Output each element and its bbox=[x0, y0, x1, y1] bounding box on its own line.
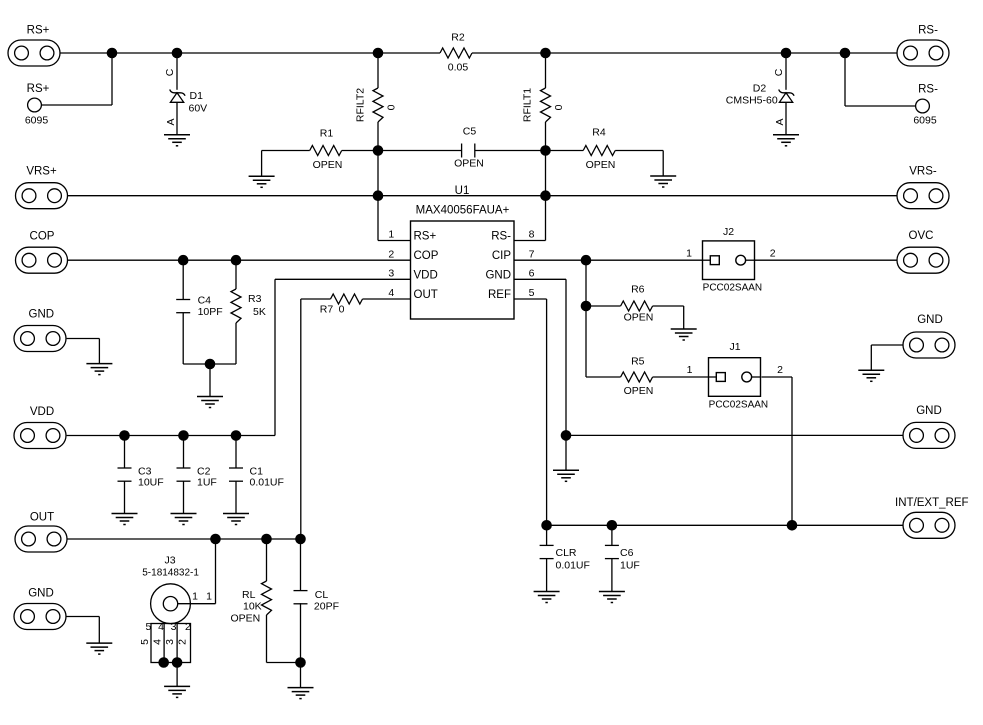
svg-text:0.01UF: 0.01UF bbox=[556, 560, 590, 572]
svg-text:6095: 6095 bbox=[25, 115, 49, 127]
svg-text:CIP: CIP bbox=[492, 250, 512, 262]
svg-text:OPEN: OPEN bbox=[313, 159, 343, 171]
svg-text:U1: U1 bbox=[455, 185, 470, 197]
svg-text:4: 4 bbox=[388, 287, 394, 299]
svg-text:0: 0 bbox=[386, 104, 398, 110]
svg-text:GND: GND bbox=[28, 587, 54, 599]
svg-text:RS-: RS- bbox=[918, 25, 938, 37]
svg-text:GND: GND bbox=[917, 314, 943, 326]
svg-text:VRS-: VRS- bbox=[909, 166, 937, 178]
svg-text:2: 2 bbox=[777, 364, 783, 376]
svg-text:3: 3 bbox=[388, 268, 394, 280]
svg-text:10PF: 10PF bbox=[198, 306, 223, 318]
svg-text:VDD: VDD bbox=[414, 269, 438, 281]
svg-text:D1: D1 bbox=[190, 90, 204, 102]
svg-text:D2: D2 bbox=[753, 83, 767, 95]
svg-text:1UF: 1UF bbox=[620, 560, 640, 572]
svg-text:R2: R2 bbox=[451, 32, 465, 44]
svg-text:RS+: RS+ bbox=[414, 231, 437, 243]
svg-text:R7: R7 bbox=[320, 304, 334, 316]
svg-text:0: 0 bbox=[553, 104, 565, 110]
svg-text:10UF: 10UF bbox=[138, 476, 164, 488]
svg-text:C5: C5 bbox=[463, 126, 477, 138]
svg-text:GND: GND bbox=[485, 269, 511, 281]
svg-text:4: 4 bbox=[152, 639, 164, 645]
svg-text:6095: 6095 bbox=[913, 115, 937, 127]
svg-text:2: 2 bbox=[770, 248, 776, 260]
svg-text:8: 8 bbox=[529, 229, 535, 241]
svg-text:3: 3 bbox=[164, 639, 176, 645]
svg-text:60V: 60V bbox=[189, 102, 208, 114]
svg-text:OVC: OVC bbox=[909, 230, 934, 242]
svg-text:5: 5 bbox=[145, 621, 151, 633]
svg-text:GND: GND bbox=[29, 309, 55, 321]
svg-text:CLR: CLR bbox=[556, 547, 577, 559]
svg-text:C6: C6 bbox=[620, 547, 634, 559]
svg-text:3: 3 bbox=[171, 621, 177, 633]
svg-text:OPEN: OPEN bbox=[454, 158, 484, 170]
svg-text:R4: R4 bbox=[592, 126, 606, 138]
svg-text:OUT: OUT bbox=[30, 511, 54, 523]
svg-text:COP: COP bbox=[414, 250, 439, 262]
svg-text:0.05: 0.05 bbox=[448, 62, 469, 74]
svg-text:PCC02SAAN: PCC02SAAN bbox=[703, 283, 762, 294]
svg-text:C4: C4 bbox=[198, 295, 212, 307]
svg-text:1: 1 bbox=[388, 229, 394, 241]
svg-text:OPEN: OPEN bbox=[231, 613, 261, 625]
svg-text:RS-: RS- bbox=[491, 231, 511, 243]
svg-text:1: 1 bbox=[687, 364, 693, 376]
svg-text:OPEN: OPEN bbox=[586, 159, 616, 171]
svg-text:INT/EXT_REF: INT/EXT_REF bbox=[895, 497, 968, 509]
svg-text:CL: CL bbox=[315, 589, 329, 601]
svg-text:R1: R1 bbox=[320, 127, 334, 139]
svg-text:RFILT1: RFILT1 bbox=[522, 88, 534, 122]
svg-text:A: A bbox=[165, 118, 177, 125]
svg-text:5: 5 bbox=[139, 639, 151, 645]
svg-text:C: C bbox=[773, 68, 785, 76]
svg-text:CMSH5-60: CMSH5-60 bbox=[726, 95, 778, 107]
svg-text:RL: RL bbox=[242, 589, 256, 601]
svg-text:PCC02SAAN: PCC02SAAN bbox=[709, 399, 768, 410]
svg-text:0: 0 bbox=[339, 304, 345, 316]
svg-text:COP: COP bbox=[30, 231, 55, 243]
svg-text:RFILT2: RFILT2 bbox=[355, 88, 367, 122]
svg-text:4: 4 bbox=[158, 621, 164, 633]
svg-text:1: 1 bbox=[192, 591, 198, 603]
svg-text:J3: J3 bbox=[164, 554, 175, 566]
svg-text:6: 6 bbox=[529, 268, 535, 280]
svg-text:A: A bbox=[774, 118, 786, 125]
svg-text:1: 1 bbox=[686, 248, 692, 260]
svg-text:OUT: OUT bbox=[414, 289, 438, 301]
svg-text:R6: R6 bbox=[631, 284, 645, 296]
svg-text:5: 5 bbox=[529, 287, 535, 299]
svg-text:5K: 5K bbox=[253, 306, 266, 318]
svg-text:7: 7 bbox=[529, 248, 535, 260]
svg-text:2: 2 bbox=[185, 621, 191, 633]
svg-text:REF: REF bbox=[488, 289, 511, 301]
svg-text:RS+: RS+ bbox=[27, 25, 50, 37]
svg-text:J1: J1 bbox=[729, 341, 740, 353]
svg-text:2: 2 bbox=[177, 639, 189, 645]
svg-text:RS-: RS- bbox=[918, 84, 938, 96]
svg-text:RS+: RS+ bbox=[27, 83, 50, 95]
svg-text:1UF: 1UF bbox=[197, 476, 217, 488]
svg-text:MAX40056FAUA+: MAX40056FAUA+ bbox=[416, 205, 510, 217]
svg-text:5-1814832-1: 5-1814832-1 bbox=[142, 567, 199, 578]
svg-text:R5: R5 bbox=[631, 356, 645, 368]
svg-text:R3: R3 bbox=[248, 293, 262, 305]
svg-text:C: C bbox=[164, 68, 176, 76]
svg-text:OPEN: OPEN bbox=[624, 385, 654, 397]
svg-text:20PF: 20PF bbox=[314, 601, 339, 613]
svg-text:OPEN: OPEN bbox=[624, 312, 654, 324]
svg-text:2: 2 bbox=[388, 248, 394, 260]
svg-text:VDD: VDD bbox=[30, 406, 54, 418]
svg-text:VRS+: VRS+ bbox=[26, 166, 57, 178]
svg-text:0.01UF: 0.01UF bbox=[250, 476, 284, 488]
svg-text:10K: 10K bbox=[243, 601, 262, 613]
svg-text:1: 1 bbox=[206, 591, 212, 603]
svg-text:J2: J2 bbox=[723, 226, 734, 238]
svg-text:GND: GND bbox=[916, 405, 942, 417]
